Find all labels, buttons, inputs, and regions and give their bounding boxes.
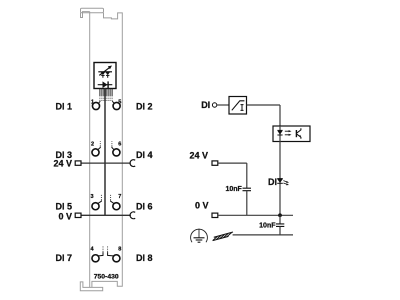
protection diode D1 cathode bar: [107, 81, 109, 88]
svg-text:DI: DI: [201, 100, 210, 110]
svg-text:2: 2: [91, 141, 94, 147]
wire 24V horizontal: [218, 162, 247, 164]
optocoupler LED triangle: [277, 131, 282, 135]
svg-text:DI 4: DI 4: [136, 150, 153, 160]
pin 6 tail and riser: [112, 147, 114, 150]
pin 2 tail and riser: [98, 147, 101, 150]
pin 8 circle: [113, 255, 120, 262]
svg-text:DI: DI: [268, 177, 277, 187]
filter ramp symbol: [232, 101, 245, 111]
0V right socket: [130, 212, 135, 219]
svg-text:DI 2: DI 2: [136, 101, 153, 111]
pin 3 circle: [92, 203, 99, 210]
phototransistor emitter: [297, 134, 301, 139]
pin 7 tail and riser: [111, 201, 115, 204]
24V right socket: [130, 160, 135, 167]
optocoupler light arrow 1: [285, 130, 289, 132]
junction dot: [278, 213, 282, 217]
chassis symbol hatching: [213, 233, 232, 241]
wire C1 down to 0V rail: [246, 191, 248, 215]
svg-text:DI 8: DI 8: [136, 253, 153, 263]
electronics box outline: [94, 63, 116, 89]
svg-text:24 V: 24 V: [53, 159, 72, 169]
svg-text:3: 3: [90, 194, 93, 200]
svg-text:750-430: 750-430: [94, 274, 119, 281]
svg-text:DI 5: DI 5: [55, 202, 72, 212]
earth electrode stem: [198, 229, 200, 238]
status LED emission arrow 1: [283, 181, 287, 182]
wire filter to corner: [247, 104, 281, 106]
connector hatch dotted tails: [100, 96, 112, 102]
connector hatch lines: [100, 89, 112, 96]
LED indicator right diode: [105, 72, 110, 75]
module left edge: [89, 12, 91, 288]
status LED emission arrow 2: [283, 183, 287, 184]
earth rail: [233, 234, 293, 236]
0V left terminal square: [75, 213, 81, 217]
svg-text:0 V: 0 V: [58, 212, 72, 222]
0V wire through module: [81, 214, 131, 216]
chassis symbol bottom edge: [213, 236, 229, 240]
svg-text:7: 7: [118, 194, 121, 200]
DI input terminal circle: [212, 103, 216, 107]
filter I glyph: [241, 105, 244, 111]
module bottom foot: [80, 282, 102, 291]
optocoupler box U2: [273, 126, 310, 142]
LED indicator left diode lead: [102, 75, 104, 77]
module right profile with latch tab: [92, 13, 122, 288]
LED indicator left diode: [101, 72, 106, 75]
LED indicator right diode cathode bar: [106, 74, 109, 76]
capacitor C1 plates: [243, 188, 252, 191]
pin 1 tail: [98, 101, 100, 103]
wire DI terminal to filter: [217, 104, 229, 106]
wire 24V down to cap C1: [246, 163, 248, 188]
svg-text:8: 8: [118, 247, 121, 253]
optocoupler LED anode bar: [277, 129, 282, 131]
phototransistor base bar: [295, 130, 297, 137]
svg-text:5: 5: [118, 99, 121, 105]
wire corner down to optocoupler: [279, 105, 281, 126]
pin 2 circle: [92, 149, 99, 156]
svg-text:DI 6: DI 6: [136, 202, 153, 212]
svg-text:1: 1: [91, 99, 94, 105]
pin 5 circle: [113, 102, 120, 109]
svg-text:DI 1: DI 1: [55, 101, 72, 111]
LED indicator symbol bus line: [98, 71, 112, 73]
internal bus center line: [104, 89, 106, 216]
svg-text:DI 7: DI 7: [55, 253, 72, 263]
earth electrode symbol arc: [191, 229, 208, 242]
protection diode D1 triangle: [103, 81, 108, 88]
LED indicator emission arrow: [99, 67, 110, 75]
0V terminal square: [212, 213, 218, 217]
pin 4 circle: [92, 255, 99, 262]
wire 0V rail: [218, 214, 293, 216]
pin 4 link and riser: [98, 252, 103, 256]
wire optocoupler down to junction: [279, 142, 281, 216]
status LED triangle: [277, 179, 283, 183]
optocoupler light arrow 2: [285, 134, 289, 136]
svg-text:10nF: 10nF: [225, 186, 242, 193]
filter box U1: [229, 97, 247, 115]
24V wire through module: [81, 162, 131, 164]
wire C2 down to earth rail: [279, 227, 281, 235]
status LED cathode bar: [277, 182, 283, 184]
pin 8 link and riser: [108, 252, 114, 256]
optocoupler LED cathode bar: [277, 134, 282, 136]
24V terminal square: [212, 161, 218, 165]
wire junction down to cap C2: [279, 215, 281, 223]
protection diode D1 line: [98, 84, 113, 86]
LED indicator left diode cathode bar: [101, 74, 104, 76]
svg-text:6: 6: [118, 141, 121, 147]
svg-text:0 V: 0 V: [195, 200, 209, 210]
module top flange: [81, 8, 104, 13]
pin 3 tail and riser: [98, 201, 102, 204]
earth electrode bars: [194, 237, 205, 239]
svg-text:24 V: 24 V: [189, 150, 208, 160]
phototransistor collector: [297, 128, 301, 133]
svg-text:10nF: 10nF: [259, 222, 276, 229]
pin 5 tail: [112, 101, 114, 103]
optocoupler internal wire: [279, 126, 281, 142]
24V left terminal square: [75, 161, 81, 165]
module top-left hook: [81, 12, 90, 18]
pin 1 circle: [92, 102, 99, 109]
pin 6 circle: [113, 149, 120, 156]
pin 7 circle: [113, 203, 120, 210]
capacitor C2 plates: [276, 224, 284, 227]
status LED anode bar: [277, 178, 283, 180]
chassis symbol top edge: [214, 232, 233, 237]
LED indicator right diode lead: [107, 75, 109, 77]
